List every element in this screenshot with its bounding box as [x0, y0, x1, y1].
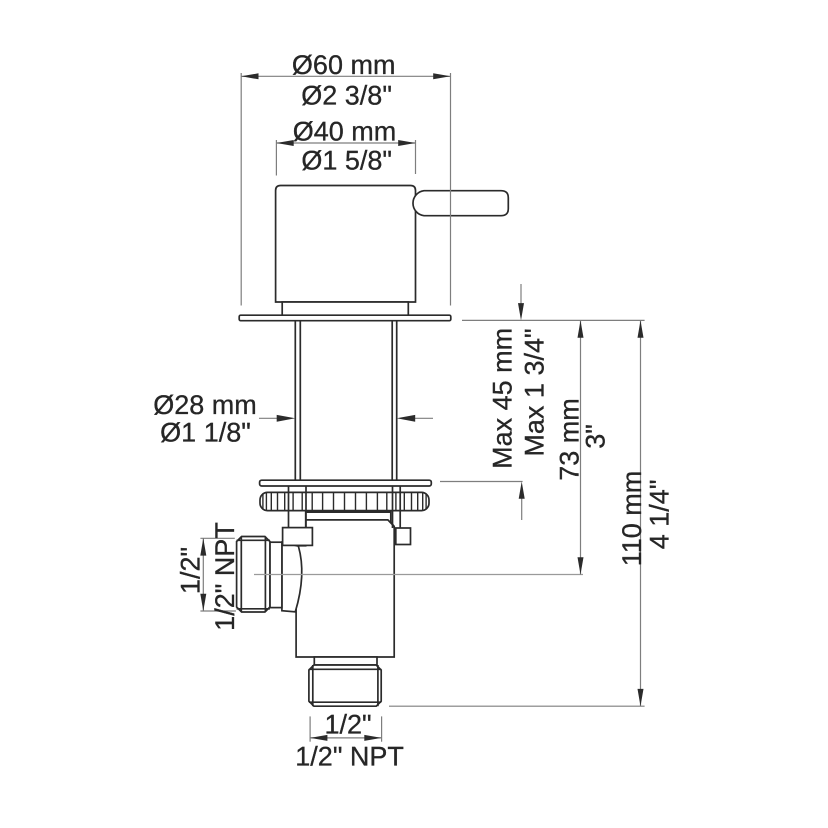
right mounting rod [392, 486, 394, 528]
cap bottom shoulder line [237, 608, 270, 610]
ext line outlet bottom [200, 610, 236, 612]
arrow outlet 1/2 top [200, 538, 206, 555]
ext line bottom right [381, 716, 383, 741]
dim line bottom 1/2 [310, 737, 382, 739]
right rod block [396, 528, 411, 545]
lever handle [413, 191, 508, 216]
svg-text:1/2": 1/2" [176, 547, 206, 594]
neck [282, 302, 408, 316]
left rod block [283, 528, 313, 546]
ext line D60 right [450, 73, 452, 306]
outlet threaded cap [237, 537, 270, 613]
ext line outlet top [200, 537, 234, 539]
svg-text:1/2" NPT: 1/2" NPT [295, 741, 404, 771]
bottom threaded plug [309, 665, 381, 706]
bottom neck [314, 657, 377, 665]
outlet centerline [254, 574, 583, 576]
outlet transition cone [282, 542, 302, 612]
Max45 top arrow tail [520, 284, 522, 306]
arrow bottom 1/2 right [364, 735, 381, 741]
D28 arrow tail right [412, 417, 433, 419]
valve body shoulder line [306, 520, 395, 527]
arrow 110 bottom [638, 689, 644, 706]
dim line outlet 1/2 [202, 538, 204, 611]
svg-text:1/2" NPT: 1/2" NPT [210, 522, 240, 631]
D28 arrow tail left [259, 417, 280, 419]
arrow bottom 1/2 left [310, 735, 327, 741]
plug top shoulder line [309, 668, 381, 670]
tube outer wall left [294, 320, 296, 480]
valve body [296, 512, 394, 657]
arrow 73 bottom [578, 557, 584, 574]
Max45 top ref line [462, 319, 645, 321]
dim line 110mm [640, 320, 642, 706]
arrow 73 top [578, 320, 584, 337]
Max45 bottom ref line [440, 481, 523, 483]
ext line D60 left [240, 73, 242, 306]
svg-text:Ø28 mm: Ø28 mm [153, 390, 257, 420]
arrow outlet 1/2 bottom [200, 594, 206, 611]
svg-text:3": 3" [581, 424, 611, 449]
plug thread line left [312, 665, 314, 706]
tube inner wall right [391, 320, 393, 480]
arrow D40 left [276, 140, 293, 146]
knurled nut [260, 492, 429, 510]
svg-text:Max 1 3/4": Max 1 3/4" [520, 328, 550, 456]
dim line 73mm [580, 320, 582, 574]
cap thread line right [264, 537, 266, 613]
arrow Max45 bottom [519, 482, 525, 499]
svg-text:Ø1 5/8": Ø1 5/8" [301, 146, 392, 176]
bottom ref line 110 [389, 705, 645, 707]
arrow D28 left [277, 415, 296, 422]
handle body [276, 186, 416, 303]
plug bottom shoulder line [309, 701, 381, 703]
arrow Max45 top [518, 303, 524, 320]
outlet mid ring [270, 542, 282, 607]
arrow D28 right [397, 415, 416, 422]
cap thread line left [240, 537, 242, 613]
arrow D60 left [241, 73, 258, 79]
plug thread line right [377, 665, 379, 706]
arrow D40 right [398, 140, 415, 146]
knurl teeth [263, 493, 426, 510]
cap top shoulder line [237, 539, 270, 541]
svg-text:Ø60 mm: Ø60 mm [292, 50, 396, 80]
tube outer wall right [396, 320, 398, 480]
Max45 bottom arrow tail [521, 497, 523, 520]
ext line D40 right [415, 140, 417, 174]
svg-text:110 mm: 110 mm [617, 471, 647, 567]
arrow 110 top [638, 320, 644, 337]
svg-text:Max 45 mm: Max 45 mm [488, 328, 518, 469]
svg-text:Ø40 mm: Ø40 mm [293, 117, 397, 147]
svg-text:4 1/4": 4 1/4" [645, 480, 675, 550]
ext line D40 left [275, 140, 277, 176]
tube inner wall left [299, 320, 301, 480]
wall flange [239, 315, 451, 321]
svg-text:Ø1 1/8": Ø1 1/8" [160, 418, 251, 448]
washer plate [260, 480, 432, 486]
svg-text:1/2": 1/2" [324, 710, 371, 740]
ext line bottom left [309, 716, 311, 741]
svg-text:Ø2 3/8": Ø2 3/8" [301, 81, 392, 111]
left mounting rod [288, 486, 290, 528]
dim line D60 [241, 75, 450, 77]
arrow D60 right [433, 73, 450, 79]
dim line D40 [276, 142, 415, 144]
